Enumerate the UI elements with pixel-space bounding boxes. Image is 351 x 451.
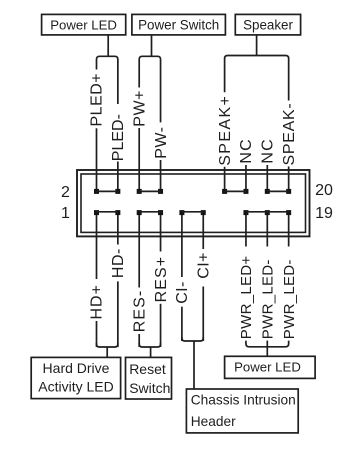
wire out of pin 17 [266,213,268,237]
wire label column 0 down to connector top [96,128,98,170]
pin 15 [243,210,248,215]
wire link pins 15-17-19 [246,211,289,213]
svg-text:CI+: CI+ [195,252,212,279]
svg-text:PLED+: PLED+ [89,73,106,127]
pin 7 [158,210,163,215]
wire out of pin 9 [181,213,183,237]
wire bracket PWR_LED pins joining to Power LED box [246,341,289,357]
wire out of pin 5 [138,213,140,237]
wire out of pin 11 [202,213,204,237]
wire into pin 20 [288,171,290,192]
wire below label column 5 to bracket [202,287,204,342]
svg-text:Power Switch: Power Switch [138,17,219,32]
pin 9 [179,210,184,215]
svg-text:Power LED: Power LED [234,359,301,374]
pin 3 [115,210,120,215]
svg-text:HD+: HD+ [89,284,106,319]
svg-text:Chassis Intrusion: Chassis Intrusion [191,393,296,408]
svg-text:SPEAK-: SPEAK- [281,103,298,166]
wire out of pin 1 [96,213,98,237]
svg-text:NC: NC [260,138,277,164]
svg-text:PW+: PW+ [131,90,148,127]
wire bracket HD+/HD- joining to Hard Drive Activity LED box [97,343,118,358]
svg-text:SPEAK+: SPEAK+ [217,95,234,166]
wire below label column 4 to bracket [181,307,183,341]
pin 5 [137,210,142,215]
pin 8 [158,189,163,194]
svg-text:RES-: RES- [131,290,148,333]
svg-text:PLED-: PLED- [110,114,127,161]
wire link pins 18-20 [267,190,288,192]
wire into pin 4 [117,171,119,192]
wire link pins 9-11 [182,211,203,213]
svg-text:PWR_LED+: PWR_LED+ [238,256,255,340]
svg-text:Speaker: Speaker [243,17,293,32]
wire link pins 1-3 [97,211,118,213]
svg-text:2: 2 [61,184,70,201]
box Reset Switch [126,357,172,399]
box Power LED (top) [42,14,126,35]
wire label column 6 down to connector top [224,167,226,171]
wire link pins 5-7 [139,211,160,213]
wire pin 11 column down [202,237,204,250]
pin 11 [201,210,206,215]
wire link pins 6-8 [139,190,160,192]
svg-text:RES+: RES+ [153,256,170,303]
pin 17 [265,210,270,215]
pin 18 [265,189,270,194]
wire into pin 6 [138,171,140,192]
wire pin 15 column down [245,237,247,247]
pin 16 [243,189,248,194]
wire link pins 14-16 [225,190,246,192]
wire label column 1 down to connector top [117,162,119,171]
wire bracket from Power Switch box to pins PW+/PW- [139,35,160,123]
wire bracket from Speaker box to pins SPEAK+/SPEAK- [225,35,289,101]
wire into pin 14 [224,171,226,192]
pin 20 [286,189,291,194]
svg-text:Switch: Switch [129,380,170,396]
svg-text:PWR_LED-: PWR_LED- [260,259,277,339]
box Power LED (bottom) [225,356,316,378]
svg-text:NC: NC [238,138,255,164]
wire pin 9 column down [181,237,183,278]
svg-text:20: 20 [315,182,333,199]
svg-text:Header: Header [191,414,236,429]
wire bracket from Power LED box to pins PLED+/PLED- [97,35,118,104]
wire below label column 0 to bracket [96,321,98,347]
box Hard Drive Activity LED [31,357,120,398]
pin 1 [94,210,99,215]
pin 2 [94,189,99,194]
wire bracket CI-/CI+ joining to Chassis Intrusion Header box [182,337,203,390]
svg-text:PW-: PW- [153,126,170,158]
wire into pin 18 [266,171,268,192]
svg-text:PWR_LED-: PWR_LED- [281,259,298,339]
wire into pin 8 [160,171,162,192]
wire label column 3 down to connector top [160,160,162,171]
wire label column 7 down to connector top [245,165,247,171]
wire pin 1 column down [96,237,98,280]
wire pin 17 column down [266,237,268,247]
connector outer body [77,170,310,236]
wire label column 9 down to connector top [288,167,290,171]
svg-text:1: 1 [61,205,70,222]
wire into pin 16 [245,171,247,192]
pin 4 [115,189,120,194]
wire label column 2 down to connector top [138,128,140,171]
wire out of pin 19 [288,213,290,237]
box Power Switch [132,14,226,35]
wire below label column 2 to bracket [138,334,140,347]
wire below label column 1 to bracket [117,281,119,347]
connector inner body [81,174,306,232]
wire pin 3 column down [117,237,119,245]
svg-text:Hard Drive: Hard Drive [43,360,110,376]
box Speaker [235,14,300,35]
box Chassis Intrusion Header [186,389,298,433]
svg-text:Activity LED: Activity LED [38,378,113,394]
wire pin 5 column down [138,237,140,288]
svg-text:CI-: CI- [174,281,191,304]
svg-text:Power LED: Power LED [50,17,117,32]
wire out of pin 15 [245,213,247,237]
wire below label column 3 to bracket [160,304,162,347]
pin 14 [222,189,227,194]
svg-text:HD-: HD- [110,248,127,278]
wire label column 8 down to connector top [266,165,268,171]
wire pin 7 column down [160,237,162,252]
pin 19 [286,210,291,215]
pin 6 [137,189,142,194]
wire bracket RES-/RES+ joining to Reset Switch box [139,343,160,358]
svg-text:Reset: Reset [129,361,166,377]
wire pin 19 column down [288,237,290,247]
wire into pin 2 [96,171,98,192]
wire link pins 2-4 [97,190,118,192]
svg-text:19: 19 [315,205,333,222]
wire out of pin 7 [160,213,162,237]
wire out of pin 3 [117,213,119,237]
